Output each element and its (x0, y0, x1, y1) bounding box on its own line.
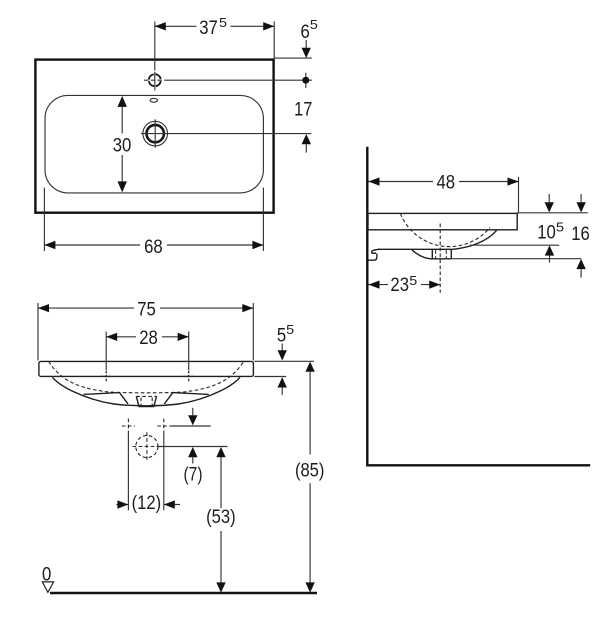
hidden basin bottom (dashed arc, front) (49, 362, 244, 393)
svg-text:10: 10 (537, 223, 556, 244)
drain leader line (141, 133, 311, 135)
dimension 30 (basin depth front-back) (113, 96, 132, 192)
dimension 6.5 (top edge to tap centre) (274, 18, 318, 58)
ceramic slab (front view) (39, 361, 254, 376)
dimension 75 (overall width) (38, 300, 253, 361)
label 10.5 (537, 221, 564, 244)
ceramic slab (side view) (368, 213, 517, 229)
16 leader line (boss bottom) (451, 258, 581, 260)
slab top extension right (517, 212, 588, 214)
dimension (7) supply to drain height (184, 408, 203, 486)
tap hole leader line and dot (166, 73, 312, 88)
svg-text:23: 23 (390, 275, 409, 296)
wall bracket hook (368, 249, 380, 260)
slab top extension line to (85) (254, 360, 314, 362)
dimension 23.5 (wall to drain centre) (369, 274, 441, 296)
svg-text:5: 5 (219, 16, 227, 30)
dimension (12) supply spacing (116, 432, 180, 514)
svg-text:75: 75 (137, 300, 156, 321)
floor line (front view) (50, 592, 317, 594)
svg-text:6: 6 (301, 22, 310, 43)
10.5 leader line (470, 244, 559, 246)
dimension 10.5 arrows (545, 194, 555, 263)
svg-text:17: 17 (294, 100, 312, 121)
slab bottom extension line (254, 376, 286, 378)
svg-text:5: 5 (286, 323, 294, 337)
hidden basin contour (dashed arc, side) (400, 214, 490, 247)
left water supply centre mark (122, 419, 135, 433)
svg-text:(7): (7) (184, 464, 203, 485)
svg-text:5: 5 (409, 274, 417, 288)
zero level marker (42, 565, 54, 593)
left tap hole centre mark (101, 371, 112, 382)
svg-text:30: 30 (113, 136, 132, 157)
dimension 5.5 (slab thickness) (277, 323, 294, 395)
drain level leader line (158, 446, 227, 448)
svg-text:5: 5 (277, 325, 286, 346)
svg-text:5: 5 (310, 18, 318, 32)
ceramic outer rim (top view) (35, 60, 273, 213)
tap hole symbol (144, 72, 166, 91)
svg-text:(53): (53) (206, 507, 236, 528)
floor line (side view) (366, 464, 590, 466)
dimension (53) drain height (206, 447, 236, 593)
supply level leader line (170, 425, 210, 427)
svg-text:(12): (12) (132, 493, 162, 514)
dimension (85) rim height (295, 362, 325, 593)
dimension 48 (overall depth) (369, 173, 519, 214)
left underside rib (84, 393, 129, 404)
right underside rib (164, 393, 209, 404)
front apron curve (side) (451, 230, 496, 249)
svg-text:68: 68 (144, 237, 163, 258)
dimension 16 arrows (576, 194, 585, 278)
svg-text:5: 5 (556, 221, 564, 235)
right water supply centre mark (157, 419, 170, 433)
drain centre line (dashed) (439, 224, 441, 293)
dimension 37.5 (tap hole to right edge) (155, 16, 274, 71)
svg-text:48: 48 (437, 173, 456, 194)
svg-text:28: 28 (139, 328, 158, 349)
underside curve to drain boss (412, 250, 431, 259)
drain outlet symbol (143, 119, 168, 147)
svg-text:(85): (85) (295, 460, 325, 481)
dimension 68 (inner basin width) (44, 188, 263, 258)
bracket underside line (378, 248, 451, 250)
overflow slot (150, 98, 157, 102)
svg-text:37: 37 (199, 18, 218, 39)
right tap hole centre mark (183, 371, 194, 382)
drain boss (side) (431, 249, 452, 258)
siphon trap (dashed circle) (133, 432, 162, 460)
dimension 28 (tap hole spacing) (106, 328, 189, 371)
svg-text:16: 16 (571, 224, 590, 245)
dimension 17 (tap centre to drain centre) (294, 100, 312, 153)
wall line (366, 147, 368, 466)
bowl underside silhouette (front) (52, 377, 240, 406)
drain boss (front) (136, 396, 156, 406)
inner basin rounded rim (45, 95, 263, 192)
